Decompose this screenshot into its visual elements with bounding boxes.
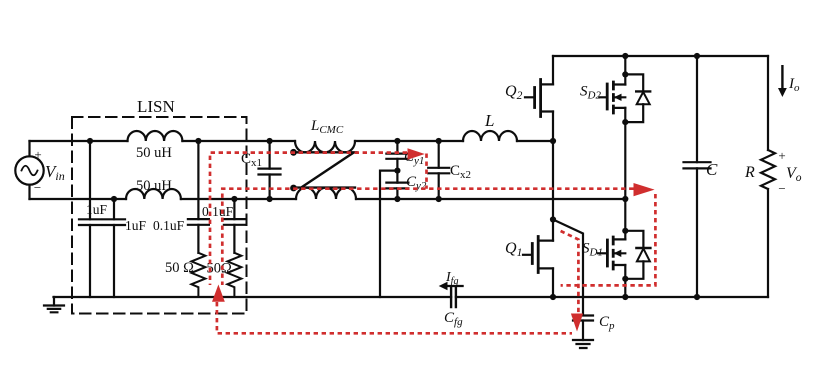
wire phase line mid — [182, 140, 295, 142]
label Vo plus minus — [778, 148, 801, 196]
wire Q-leg middle — [552, 112, 554, 241]
wire S-leg middle — [624, 108, 626, 240]
wire neutral line left — [30, 198, 127, 200]
red arrow toward bridge — [634, 183, 655, 196]
node dot Y midpoint — [394, 168, 400, 174]
capacitor 0.1uF A leg — [197, 141, 199, 253]
ground below Cp — [573, 321, 593, 349]
wire S-leg lower — [624, 265, 626, 297]
capacitor Cy1 plates — [386, 154, 408, 159]
red arrow up into LISN — [212, 285, 225, 302]
node dot SD2 diode top — [622, 71, 628, 77]
svg-text:C: C — [706, 160, 718, 179]
capacitor 1uF B leg — [113, 199, 115, 297]
wire phase line left — [30, 140, 128, 142]
svg-text:LCMC: LCMC — [310, 118, 344, 136]
node dot SD1 diode bottom — [622, 276, 628, 282]
node dot neutral S-leg — [622, 196, 628, 202]
node dot phase Cx2 — [436, 138, 442, 144]
CM choke bottom winding — [296, 188, 356, 199]
capacitor 1uF A leg — [89, 141, 91, 297]
red path around SD1 — [561, 194, 656, 285]
wire switch node to Cp — [553, 220, 583, 316]
svg-text:Cx2: Cx2 — [450, 163, 471, 181]
node dot neutral Cx1 — [267, 196, 273, 202]
diode SD1 body — [625, 231, 650, 279]
transistor Q1 — [523, 237, 553, 273]
node dot top rail SD2 — [622, 53, 628, 59]
capacitor Cy1 leg — [396, 141, 398, 171]
wire Q-leg upper — [552, 56, 554, 84]
capacitor C output plates — [684, 162, 711, 168]
arrow Io — [778, 66, 787, 97]
capacitor 0.1uF A plates — [188, 219, 209, 225]
svg-text:Ifg: Ifg — [445, 270, 458, 287]
CM choke core Z lines — [294, 152, 355, 187]
inductor L — [463, 131, 517, 141]
svg-text:Cp: Cp — [599, 314, 615, 332]
svg-text:SD1: SD1 — [582, 241, 603, 259]
capacitor 0.1uF B leg — [233, 199, 235, 253]
node dot neutral Cx2 — [436, 196, 442, 202]
red path bottom return — [217, 302, 572, 333]
capacitor Cx2 leg — [438, 141, 440, 199]
label Vin — [34, 147, 65, 195]
svg-text:SD2: SD2 — [580, 84, 601, 102]
capacitor Cx1 plates — [259, 169, 281, 175]
node dot phase 0.1uF — [195, 138, 201, 144]
svg-text:Io: Io — [788, 76, 800, 94]
svg-text:50 uH: 50 uH — [136, 145, 172, 161]
wire top rail — [553, 55, 768, 57]
svg-text:LISN: LISN — [137, 97, 175, 116]
red arrow into Cp — [571, 314, 583, 332]
node dot rail Q-leg — [550, 294, 556, 300]
capacitor Cp plates — [573, 316, 593, 321]
wire ground rail right — [456, 296, 768, 298]
wire neutral line mid — [181, 198, 296, 200]
wire source bottom lead — [28, 185, 30, 199]
red arrow at Cy1 — [408, 148, 425, 159]
resistor 50ohm B — [227, 253, 241, 297]
wire S-leg upper — [624, 56, 626, 85]
svg-text:0.1uF: 0.1uF — [153, 218, 185, 233]
node dot SD2 diode bottom — [622, 119, 628, 125]
resistor R load — [761, 56, 775, 297]
svg-text:50 uH: 50 uH — [136, 178, 172, 194]
node dot switch node — [550, 138, 556, 144]
svg-text:−: − — [34, 180, 41, 195]
svg-text:1uF: 1uF — [125, 218, 147, 233]
red noise path top through choke — [210, 153, 407, 285]
diode SD2 body — [625, 74, 650, 122]
wire neutral after choke — [356, 198, 625, 200]
transistor SD2 — [599, 82, 625, 113]
node dot SD1 diode top — [622, 228, 628, 234]
node dot phase Cy1 — [394, 138, 400, 144]
capacitor C output leg — [696, 56, 698, 297]
AC source Vin — [15, 156, 43, 184]
svg-text:L: L — [484, 111, 494, 130]
capacitor Cx1 leg — [269, 141, 271, 199]
wire phase after choke — [355, 140, 463, 142]
node dot phase Cx1 — [267, 138, 273, 144]
CM choke phase dot top — [290, 149, 297, 156]
wire source top lead — [28, 141, 30, 156]
svg-text:Cfg: Cfg — [444, 310, 463, 328]
red path corner down at Cy — [425, 154, 428, 189]
svg-text:0.1uF: 0.1uF — [202, 204, 234, 219]
svg-text:+: + — [34, 147, 41, 162]
svg-text:−: − — [778, 181, 785, 196]
node dot rail C — [694, 294, 700, 300]
CM choke top winding — [295, 141, 355, 152]
capacitor 0.1uF B plates — [224, 219, 245, 225]
node dot neutral 0.1uF — [231, 196, 237, 202]
wire Q-leg lower — [552, 268, 554, 297]
node dot neutral Cy2 — [394, 196, 400, 202]
red path switch node to Cp — [561, 231, 579, 313]
svg-text:+: + — [778, 148, 785, 163]
svg-text:Vin: Vin — [45, 162, 65, 183]
node dot Q-leg diagonal — [550, 216, 556, 222]
capacitor 1uF B plates — [103, 219, 125, 225]
arrow Ifg — [439, 282, 463, 290]
CM choke phase dot bottom — [290, 185, 297, 192]
capacitor Cx2 plates — [428, 168, 449, 174]
node dot phase 1uF — [87, 138, 93, 144]
inductor 50uH top — [128, 131, 183, 141]
node dot top rail C — [694, 53, 700, 59]
LISN dashed box — [72, 117, 247, 314]
capacitor Cfg plates — [451, 287, 456, 307]
svg-text:1uF: 1uF — [86, 202, 108, 217]
ground symbol left — [44, 297, 64, 312]
capacitor Cy2 plates — [386, 183, 408, 189]
svg-text:Vo: Vo — [786, 165, 802, 184]
node dot rail S-leg — [622, 294, 628, 300]
resistor 50ohm A — [191, 253, 205, 297]
capacitor Cy2 leg — [396, 171, 398, 199]
svg-text:Q2: Q2 — [505, 83, 523, 102]
transistor SD1 — [598, 237, 625, 269]
svg-text:50 Ω: 50 Ω — [165, 260, 194, 276]
red noise path bottom through choke — [222, 189, 633, 285]
wire ground rail left — [54, 296, 452, 298]
transistor Q2 — [525, 80, 553, 117]
wire phase to switch node — [517, 140, 553, 142]
inductor 50uH bottom — [126, 189, 181, 199]
node dot neutral 1uF — [111, 196, 117, 202]
svg-text:Q1: Q1 — [505, 240, 522, 259]
wire Y-cap midpoint to ground — [380, 171, 397, 297]
svg-text:R: R — [744, 164, 755, 181]
capacitor 1uF A plates — [79, 219, 101, 225]
